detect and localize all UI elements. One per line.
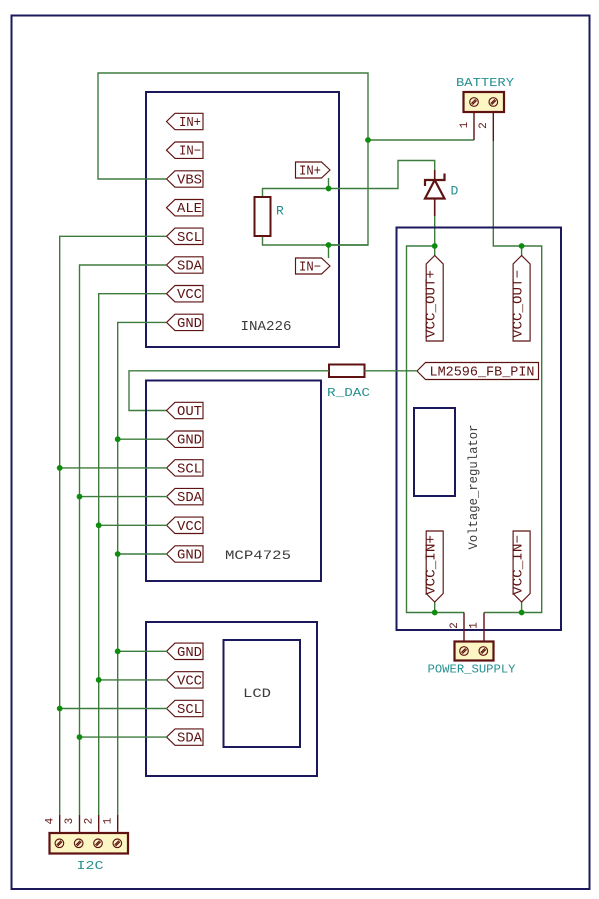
- wire R_DAC to MCP OUT: [129, 371, 329, 411]
- hier pin GND (LCD): [167, 643, 204, 661]
- svg-text:LCD: LCD: [243, 686, 271, 701]
- wire LCD SDA stub: [80, 736, 168, 738]
- power supply pin 2 stub: [449, 613, 464, 642]
- wire MCP GND2 stub: [118, 553, 167, 555]
- svg-text:VCC_IN+: VCC_IN+: [425, 535, 440, 595]
- vertical label VCC_IN-: [512, 531, 531, 602]
- wire SCL bus line A: [60, 236, 166, 815]
- svg-text:IN+: IN+: [179, 116, 201, 131]
- vertical label VCC_OUT+: [425, 256, 444, 342]
- hier pin VBS: [167, 171, 204, 189]
- junction VCC_IN+: [432, 610, 438, 616]
- junction MCP GND2: [115, 551, 121, 557]
- battery pin 1 stub: [459, 112, 474, 140]
- junction LCD VCC: [96, 677, 102, 683]
- svg-text:VCC: VCC: [177, 520, 202, 535]
- wire MCP SDA stub: [80, 496, 168, 498]
- hier pin GND (MCP4725 bottom): [167, 546, 204, 564]
- connector BATTERY: [456, 76, 514, 112]
- wire MCP GND stub: [118, 438, 167, 440]
- junction battery pin1 net: [365, 137, 371, 143]
- hier pin VCC (INA226): [167, 286, 204, 304]
- wire MCP VCC stub: [99, 524, 167, 526]
- svg-text:SDA: SDA: [177, 491, 203, 506]
- junction VCC_IN-: [519, 610, 525, 616]
- resistor R: [255, 197, 285, 236]
- svg-text:SDA: SDA: [177, 260, 203, 275]
- label IN- (inside INA226 right): [296, 258, 331, 276]
- svg-text:VCC_OUT−: VCC_OUT−: [512, 270, 527, 338]
- IC box LCD: [146, 622, 317, 776]
- svg-text:GND: GND: [177, 434, 202, 449]
- wire MCP SCL stub: [60, 467, 167, 469]
- junction MCP SCL: [57, 465, 63, 471]
- svg-text:D: D: [451, 184, 459, 199]
- hier pin IN- (INA226 left): [167, 142, 204, 160]
- wire IN+ label stub: [328, 178, 330, 189]
- hier pin SCL (INA226): [167, 228, 204, 246]
- svg-text:SCL: SCL: [177, 231, 202, 246]
- svg-text:IN−: IN−: [299, 261, 321, 276]
- wire battery pin2 to VCC_OUT-: [484, 141, 542, 613]
- wire VBS net top: [98, 73, 368, 245]
- wire VCC_OUT- stub: [521, 246, 523, 256]
- svg-text:GND: GND: [177, 646, 202, 661]
- resistor R_DAC: [327, 365, 370, 401]
- IC box INA226: [146, 92, 339, 347]
- wire R_DAC to LM2596_FB_PIN: [365, 370, 418, 372]
- IC box MCP4725: [146, 381, 321, 582]
- connector POWER_SUPPLY: [428, 642, 516, 677]
- junction MCP GND: [115, 436, 121, 442]
- svg-text:GND: GND: [177, 549, 202, 564]
- svg-text:2: 2: [83, 818, 95, 825]
- svg-text:4: 4: [45, 817, 57, 824]
- wire VCC_OUT+ stub: [434, 246, 436, 256]
- hier pin IN+ (INA226 left): [167, 113, 204, 131]
- wire LCD GND stub: [118, 650, 167, 652]
- hier pin SCL (LCD): [167, 700, 204, 718]
- junction IN+: [326, 186, 332, 192]
- I2C pin 4 stub: [45, 815, 60, 833]
- junction VCC_OUT-: [519, 243, 525, 249]
- svg-text:SDA: SDA: [177, 732, 203, 747]
- hier pin SDA (LCD): [167, 729, 204, 747]
- hier pin SCL (MCP4725): [167, 460, 204, 478]
- svg-text:SCL: SCL: [177, 703, 202, 718]
- svg-text:1: 1: [102, 817, 114, 824]
- svg-text:IN+: IN+: [299, 165, 321, 180]
- wire VCC_OUT+ net loop to VCC_IN+: [407, 246, 465, 613]
- wire IN- row: [263, 236, 369, 245]
- wire diode anode down: [434, 216, 436, 246]
- hier pin OUT (MCP4725): [167, 402, 204, 420]
- svg-text:VCC_OUT+: VCC_OUT+: [425, 270, 440, 338]
- svg-text:1: 1: [469, 622, 481, 629]
- wire SDA bus line B: [80, 265, 167, 815]
- svg-text:VCC: VCC: [177, 674, 202, 689]
- svg-text:POWER_SUPPLY: POWER_SUPPLY: [428, 663, 516, 677]
- diode D: [425, 170, 459, 216]
- power supply pin 1 stub: [469, 613, 485, 642]
- IC box Voltage_regulator: [397, 228, 562, 631]
- svg-text:GND: GND: [177, 317, 202, 332]
- I2C pin 3 stub: [64, 815, 80, 833]
- wire battery pin1 to net: [368, 139, 474, 141]
- svg-text:R_DAC: R_DAC: [327, 386, 370, 400]
- junction LCD SDA: [77, 734, 83, 740]
- wire VCC_IN- stub: [521, 602, 523, 613]
- hier pin SDA (MCP4725): [167, 488, 204, 506]
- wire GND bus line D: [118, 322, 166, 815]
- wire IN- label stub: [328, 245, 330, 258]
- wire LCD VCC stub: [99, 679, 167, 681]
- hier pin GND (INA226): [167, 314, 204, 332]
- junction IN-: [326, 242, 332, 248]
- svg-text:VCC_IN−: VCC_IN−: [512, 535, 527, 595]
- svg-text:MCP4725: MCP4725: [225, 548, 291, 563]
- junction LCD GND: [115, 648, 121, 654]
- junction VCC_OUT+: [432, 243, 438, 249]
- svg-text:I2C: I2C: [77, 859, 104, 873]
- svg-text:LM2596_FB_PIN: LM2596_FB_PIN: [430, 366, 535, 381]
- hier pin VCC (MCP4725): [167, 517, 204, 535]
- I2C pin 2 stub: [83, 815, 98, 833]
- wire VCC_IN+ stub: [434, 602, 436, 613]
- svg-text:VCC: VCC: [177, 288, 202, 303]
- svg-text:VBS: VBS: [177, 174, 202, 189]
- svg-text:R: R: [276, 204, 284, 219]
- svg-text:ALE: ALE: [177, 202, 202, 217]
- regulator inner rectangle: [414, 408, 455, 496]
- svg-text:Voltage_regulator: Voltage_regulator: [467, 425, 481, 550]
- hier pin SDA (INA226): [167, 257, 204, 275]
- svg-text:1: 1: [459, 121, 471, 128]
- battery pin 2 stub: [478, 112, 493, 141]
- junction MCP SDA: [77, 494, 83, 500]
- svg-text:2: 2: [449, 622, 461, 629]
- wire IN+ row: [263, 161, 435, 198]
- junction LCD SCL: [57, 706, 63, 712]
- LCD screen rectangle: [224, 640, 301, 747]
- vertical label VCC_OUT-: [512, 256, 531, 342]
- I2C pin 1 stub: [102, 815, 117, 833]
- svg-text:3: 3: [64, 818, 76, 825]
- svg-text:OUT: OUT: [177, 405, 202, 420]
- svg-text:BATTERY: BATTERY: [456, 76, 514, 90]
- hier pin VCC (LCD): [167, 672, 204, 690]
- svg-text:2: 2: [478, 122, 490, 129]
- junction MCP VCC: [96, 522, 102, 528]
- label LM2596_FB_PIN: [417, 363, 539, 381]
- hier pin ALE: [167, 200, 204, 218]
- svg-text:IN−: IN−: [179, 145, 201, 160]
- vertical label VCC_IN+: [425, 531, 444, 602]
- wire VCC bus line C: [99, 294, 166, 815]
- label IN+ (inside INA226 right): [296, 162, 331, 180]
- svg-text:INA226: INA226: [241, 320, 292, 335]
- hier pin GND (MCP4725 top): [167, 431, 204, 449]
- connector I2C: [50, 833, 129, 873]
- wire LCD SCL stub: [60, 708, 167, 710]
- svg-text:SCL: SCL: [177, 462, 202, 477]
